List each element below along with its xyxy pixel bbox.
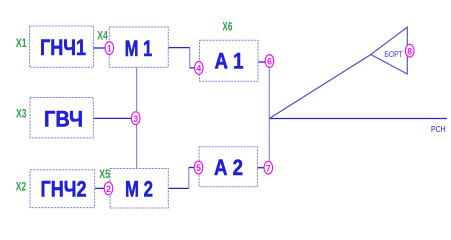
block ГНЧ2: [30, 170, 95, 208]
svg-text:А 1: А 1: [215, 49, 244, 74]
svg-text:X2: X2: [16, 179, 27, 193]
wire М1-to-А1 vertical drop: [189, 48, 191, 68]
svg-text:ГНЧ2: ГНЧ2: [41, 177, 87, 202]
svg-text:4: 4: [196, 64, 201, 75]
node 6: [265, 55, 274, 68]
wire ГНЧ2 to node 2: [95, 187, 105, 189]
svg-text:М 1: М 1: [125, 36, 153, 61]
svg-text:2: 2: [106, 184, 111, 195]
wire collecting vertical node6-node7: [268, 61, 270, 168]
node 1: [105, 42, 114, 55]
wire ГНЧ1 to node 1: [94, 47, 106, 49]
svg-text:7: 7: [266, 163, 271, 174]
svg-text:М 2: М 2: [125, 177, 153, 202]
wire М1 output horizontal: [168, 47, 190, 49]
wire РСН horizontal output: [269, 118, 447, 120]
svg-text:X4: X4: [97, 28, 108, 42]
wire А1 output to node 6: [258, 61, 266, 63]
node 2: [104, 182, 113, 195]
node 4: [195, 62, 204, 75]
svg-text:8: 8: [407, 46, 412, 57]
wire А2 output to node 7: [257, 167, 264, 169]
node 8: [405, 44, 414, 57]
svg-text:3: 3: [133, 114, 138, 125]
block А1: [200, 40, 259, 81]
node 3: [131, 112, 140, 125]
wire beam to antenna: [269, 55, 371, 119]
block ГНЧ1: [30, 26, 94, 67]
wire М2 output horizontal: [168, 187, 189, 189]
svg-text:X5: X5: [99, 167, 110, 181]
svg-text:X3: X3: [16, 106, 27, 120]
svg-text:6: 6: [267, 57, 272, 68]
node 5: [194, 161, 203, 174]
svg-text:5: 5: [196, 163, 201, 174]
svg-text:X1: X1: [16, 36, 27, 50]
svg-text:ГВЧ: ГВЧ: [44, 106, 83, 131]
antenna БОРТ horn triangle: [371, 27, 408, 74]
wire into node 5: [189, 167, 195, 169]
block ГВЧ: [30, 98, 93, 138]
node 7: [264, 161, 273, 174]
svg-text:1: 1: [107, 44, 112, 55]
svg-text:РСН: РСН: [431, 124, 446, 134]
svg-text:X6: X6: [222, 20, 232, 34]
wire М1 bottom to М2 top vertical: [136, 67, 138, 168]
wire into node 4: [190, 67, 195, 69]
block М1: [109, 27, 168, 67]
svg-text:БОРТ: БОРТ: [384, 49, 403, 59]
block М2: [110, 169, 168, 209]
block А2: [199, 147, 257, 187]
svg-text:ГНЧ1: ГНЧ1: [40, 35, 86, 60]
wire М2-to-А2 vertical rise: [188, 168, 190, 189]
svg-text:А 2: А 2: [214, 155, 243, 180]
wire ГВЧ to node 3: [93, 117, 132, 119]
